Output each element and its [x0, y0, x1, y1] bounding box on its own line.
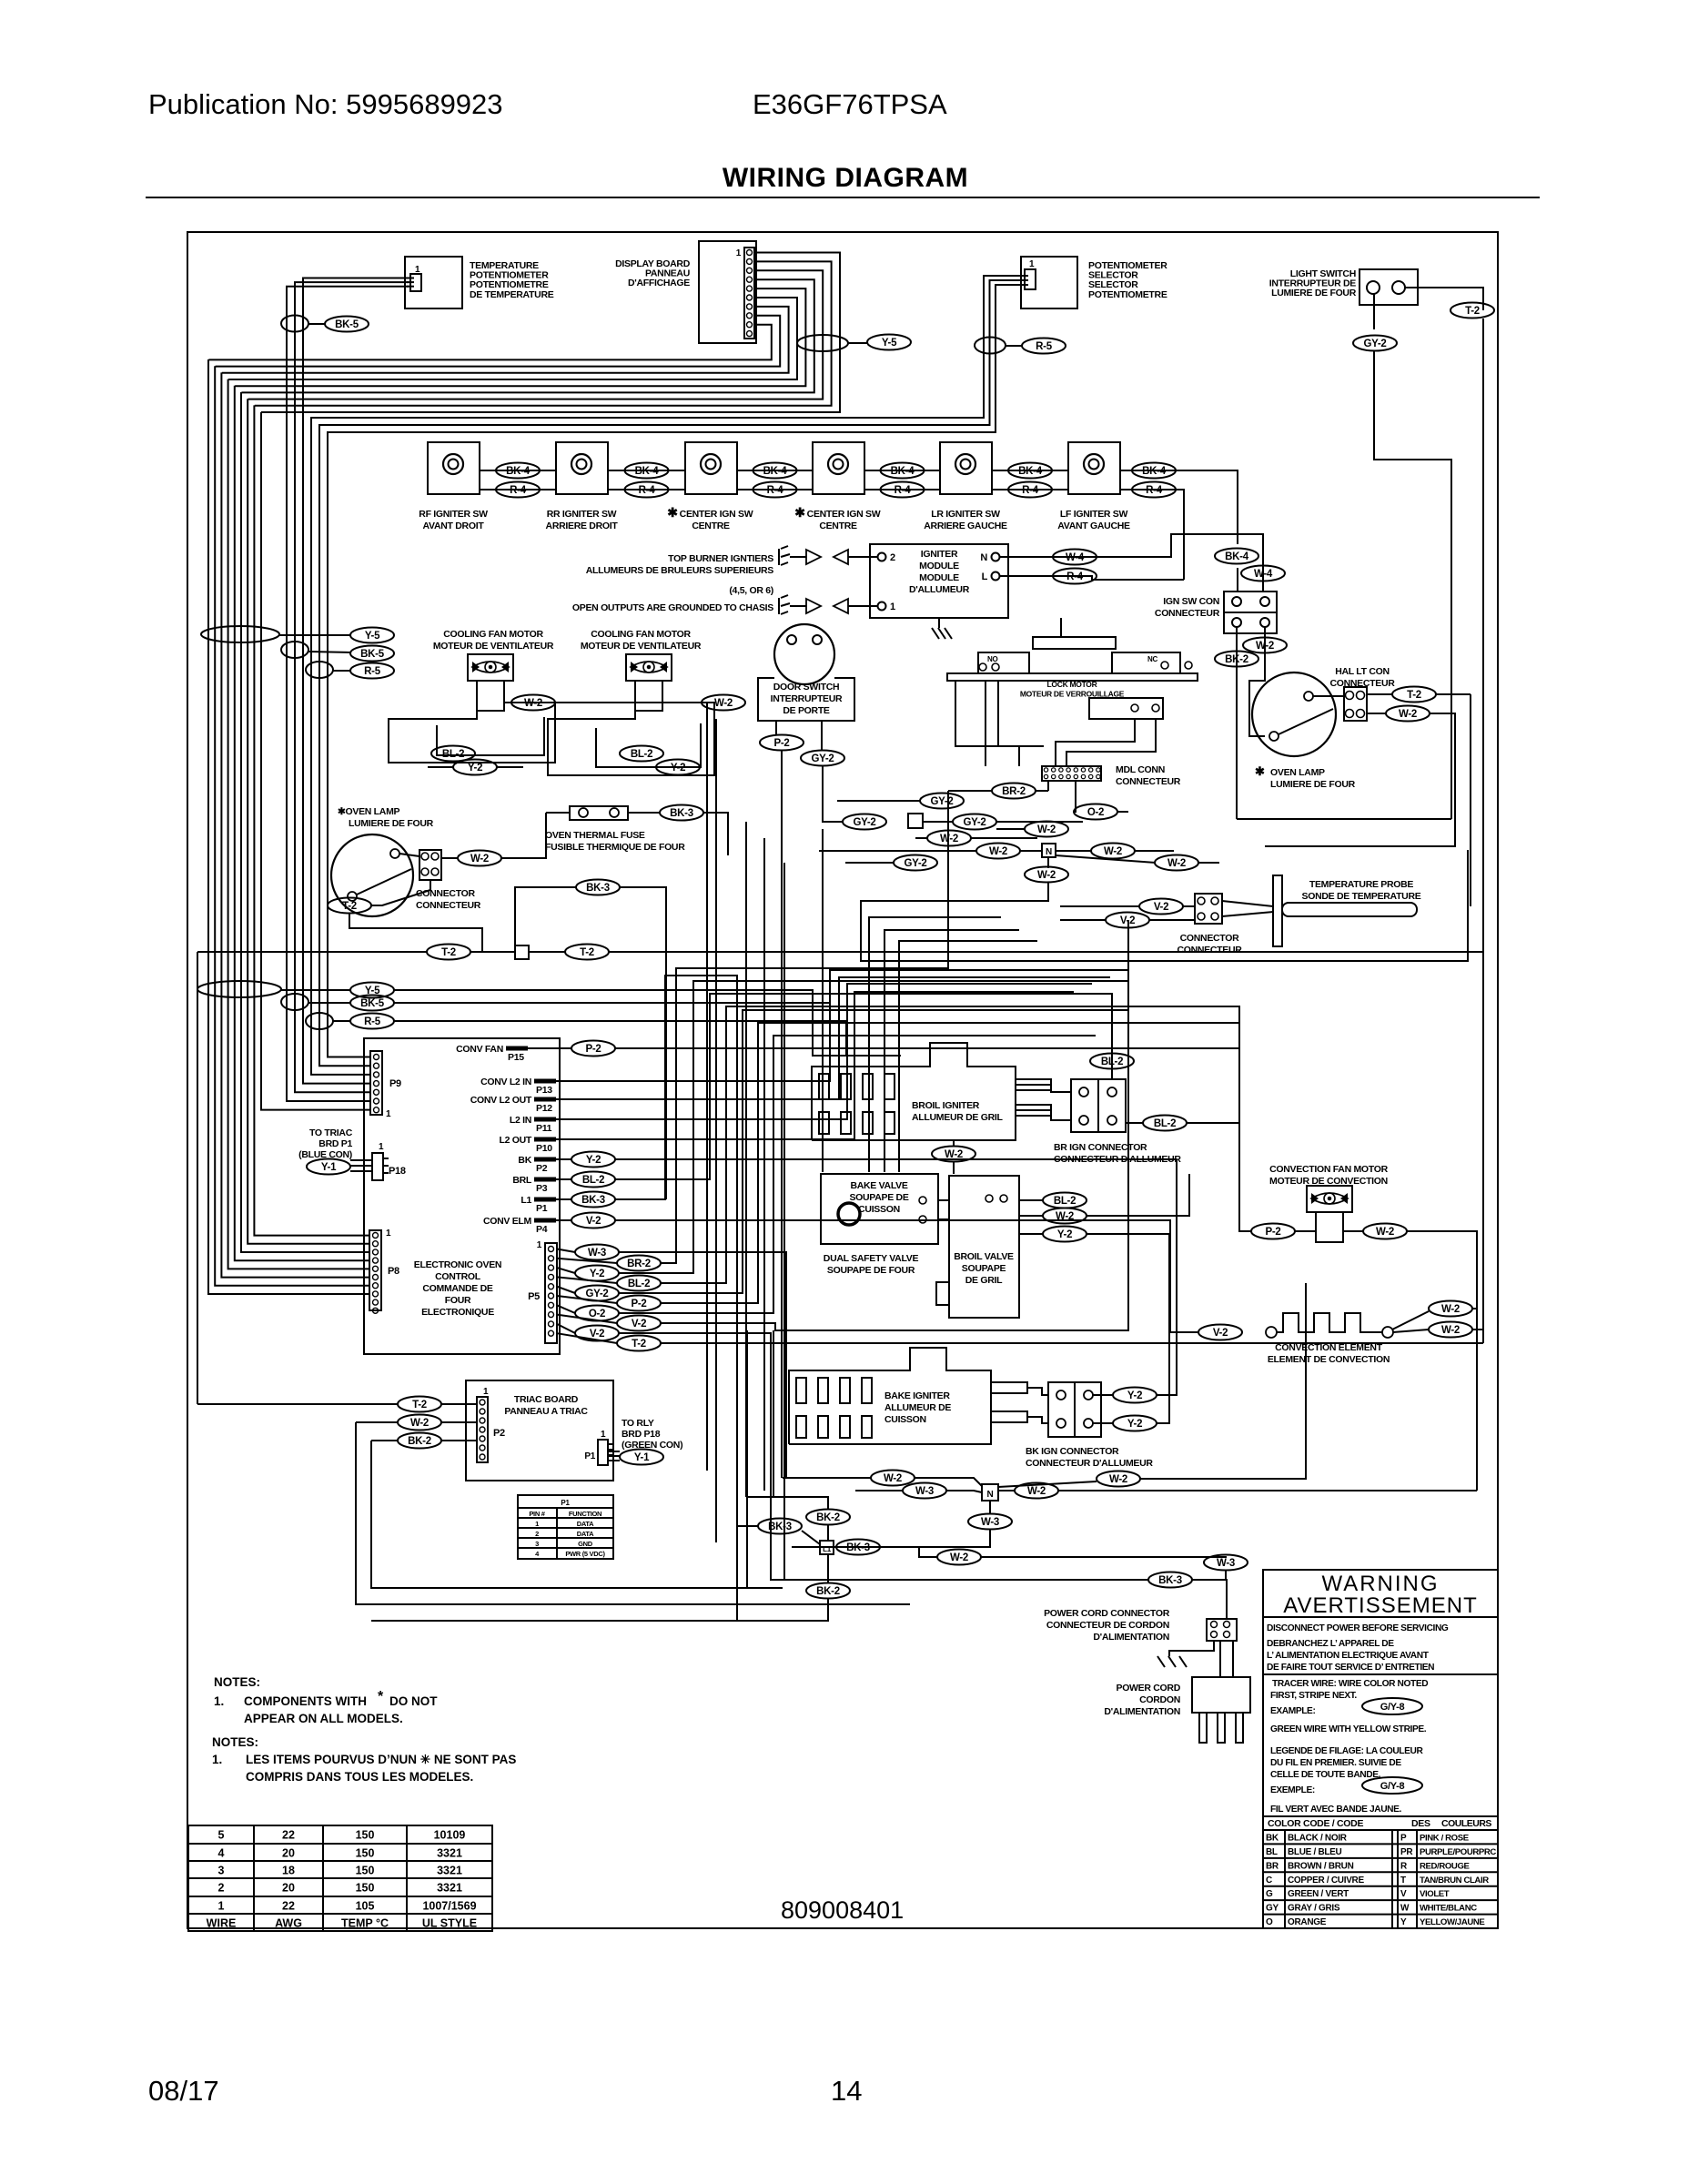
- svg-text:P10: P10: [536, 1143, 552, 1154]
- svg-text:W-2: W-2: [524, 698, 542, 709]
- lock motor NO contact: [978, 652, 1029, 673]
- svg-text:V-2: V-2: [1154, 902, 1168, 913]
- svg-text:YELLOW/JAUNE: YELLOW/JAUNE: [1420, 1917, 1485, 1927]
- wire label R-4: [625, 482, 669, 498]
- svg-text:R-4: R-4: [510, 485, 527, 496]
- wire label W-2 mid a: [1025, 822, 1068, 837]
- svg-text:*: *: [378, 1689, 384, 1704]
- lock motor top bar: [1033, 637, 1116, 649]
- wire label Y-2 broil valve: [1043, 1227, 1087, 1242]
- wire label BK-3 l1 left: [758, 1519, 802, 1534]
- wire P12 right: [556, 977, 1110, 1099]
- svg-text:LOCK MOTOR: LOCK MOTOR: [1047, 680, 1097, 689]
- svg-text:D'ALLUMEUR: D'ALLUMEUR: [909, 584, 970, 595]
- svg-text:O-2: O-2: [1087, 807, 1104, 818]
- wire label P-2 door: [760, 735, 804, 751]
- svg-text:BK: BK: [1266, 1834, 1279, 1844]
- svg-text:20: 20: [282, 1882, 295, 1895]
- svg-text:Y-2: Y-2: [671, 763, 685, 773]
- svg-text:O-2: O-2: [589, 1309, 605, 1319]
- igniter switch box 2 (RR IGNITER SW): [556, 442, 608, 494]
- mid junction square: [908, 814, 923, 828]
- svg-text:CONNECTEUR: CONNECTEUR: [1116, 776, 1181, 787]
- svg-text:TO RLY: TO RLY: [622, 1418, 654, 1429]
- oven lamp left symbol: [331, 834, 413, 916]
- svg-text:BR IGN CONNECTOR: BR IGN CONNECTOR: [1054, 1142, 1147, 1153]
- crossing ellipse Y-5 lower: [197, 981, 281, 997]
- wire GY-2 path down and right: [1374, 351, 1451, 819]
- svg-text:1: 1: [535, 1520, 539, 1528]
- exemple oval G/Y-8: [1362, 1777, 1422, 1794]
- svg-text:W-2: W-2: [1056, 1211, 1074, 1222]
- svg-text:L’ ALIMENTATION ELECTRIQUE: L’ ALIMENTATION ELECTRIQUE AVANT: [1267, 1651, 1430, 1661]
- wire label V-2 at P5 pin 8: [617, 1316, 661, 1331]
- svg-text:1: 1: [386, 1228, 391, 1239]
- svg-text:TRIAC BOARD: TRIAC BOARD: [514, 1394, 579, 1405]
- svg-text:W-2: W-2: [1037, 824, 1056, 835]
- svg-text:FUSIBLE THERMIQUE DE FOUR: FUSIBLE THERMIQUE DE FOUR: [545, 842, 685, 853]
- wire label W-2 right low: [1155, 855, 1198, 871]
- svg-text:R-5: R-5: [364, 1016, 381, 1027]
- svg-text:OPEN OUTPUTS ARE GROUNDED TO C: OPEN OUTPUTS ARE GROUNDED TO CHASIS: [572, 602, 773, 613]
- svg-text:W-2: W-2: [410, 1418, 429, 1429]
- wire P10 right: [556, 992, 1074, 1139]
- svg-text:Y-2: Y-2: [1127, 1390, 1142, 1401]
- svg-text:W-2: W-2: [714, 698, 733, 709]
- svg-text:COOLING FAN MOTOR: COOLING FAN MOTOR: [591, 629, 691, 640]
- igniter switch box 5 (LR IGNITER SW): [940, 442, 992, 494]
- svg-text:P5: P5: [528, 1291, 540, 1302]
- svg-text:BK-2: BK-2: [816, 1512, 840, 1523]
- svg-text:T-2: T-2: [1407, 690, 1421, 701]
- wire bundle: display board loop horizontals: [261, 253, 840, 413]
- temperature probe connector: [1195, 894, 1222, 924]
- wire label W-3 at P5 pin 1: [575, 1245, 619, 1260]
- svg-text:ARRIERE GAUCHE: ARRIERE GAUCHE: [924, 521, 1007, 531]
- svg-text:R-4: R-4: [767, 485, 784, 496]
- svg-text:BK-3: BK-3: [670, 808, 693, 819]
- svg-text:BAKE VALVE: BAKE VALVE: [850, 1180, 907, 1191]
- wire label T-2 left: [427, 945, 470, 960]
- svg-text:BL-2: BL-2: [442, 749, 464, 760]
- svg-text:22: 22: [282, 1900, 295, 1913]
- wire label BK-4 right: [1132, 463, 1176, 479]
- wire label W-2 conv element a: [1429, 1301, 1472, 1317]
- svg-text:W-2: W-2: [1037, 870, 1056, 881]
- wire label V-2 at P4: [571, 1213, 615, 1228]
- svg-text:COLOR CODE / CODE: COLOR CODE / CODE: [1268, 1818, 1363, 1829]
- wire P5 V-2 lower: [619, 1333, 881, 1580]
- svg-text:ALLUMEUR DE GRIL: ALLUMEUR DE GRIL: [912, 1112, 1003, 1123]
- wire BK-4 / R-4 chain across igniter switches: [480, 470, 556, 471]
- svg-text:T-2: T-2: [412, 1400, 427, 1410]
- svg-text:HAL LT CON: HAL LT CON: [1335, 666, 1390, 677]
- svg-text:CONV L2 IN: CONV L2 IN: [480, 1077, 531, 1087]
- svg-text:COPPER / CUIVRE: COPPER / CUIVRE: [1288, 1876, 1364, 1886]
- svg-text:WIRE: WIRE: [207, 1917, 237, 1930]
- svg-text:R-5: R-5: [1036, 341, 1053, 352]
- svg-text:DES: DES: [1411, 1818, 1430, 1829]
- svg-text:GY-2: GY-2: [1363, 339, 1386, 349]
- wire P5 GY-2 up: [619, 1010, 1128, 1293]
- IGN SW CON connector box: [1224, 591, 1277, 633]
- svg-text:PURPLE/POURPRC: PURPLE/POURPRC: [1420, 1847, 1496, 1857]
- wire label BK-5 mid: [350, 646, 394, 662]
- svg-text:BK-2: BK-2: [1225, 654, 1248, 665]
- svg-text:V-2: V-2: [1213, 1328, 1228, 1339]
- wire label BK-4: [881, 463, 925, 479]
- svg-text:Y-2: Y-2: [586, 1155, 601, 1166]
- wire label W-2 lower mid: [937, 1550, 981, 1565]
- wire label W-4: [1053, 550, 1097, 565]
- wire label BL-2 br right: [1143, 1116, 1187, 1131]
- svg-text:Publication No: 5995689923: Publication No: 5995689923: [148, 88, 503, 120]
- svg-text:BK-3: BK-3: [586, 883, 610, 894]
- svg-text:V-2: V-2: [632, 1319, 646, 1330]
- svg-text:P9: P9: [389, 1078, 401, 1089]
- wire label BR-2 at P5 pin 2: [617, 1256, 661, 1271]
- svg-text:CONVECTION FAN MOTOR: CONVECTION FAN MOTOR: [1269, 1164, 1388, 1175]
- wire label GY-2 mid a: [920, 794, 964, 809]
- svg-text:GY: GY: [1266, 1904, 1279, 1914]
- wire P5 BR-2 up to MDL area: [661, 791, 948, 1263]
- svg-text:MOTEUR DE VENTILATEUR: MOTEUR DE VENTILATEUR: [433, 641, 554, 652]
- igniter module terminal 1: [878, 602, 886, 611]
- svg-text:4: 4: [218, 1847, 225, 1860]
- svg-text:DE PORTE: DE PORTE: [783, 705, 830, 716]
- svg-text:Y-1: Y-1: [634, 1452, 650, 1463]
- svg-text:COMPONENTS WITH: COMPONENTS WITH: [244, 1694, 367, 1708]
- svg-text:N: N: [987, 1490, 994, 1500]
- svg-text:PR: PR: [1400, 1847, 1413, 1857]
- wire label T-2 at P5 pin 10: [617, 1336, 661, 1351]
- svg-text:WHITE/BLANC: WHITE/BLANC: [1420, 1904, 1477, 1914]
- svg-text:CENTER IGN SW: CENTER IGN SW: [807, 509, 881, 520]
- wire label GY-2 mid c: [953, 814, 996, 830]
- wire label W-2 conv element b: [1429, 1322, 1472, 1338]
- wire label R-4: [1008, 482, 1052, 498]
- svg-text:R-4: R-4: [895, 485, 912, 496]
- wire bundle: temperature potentiometer 3 wires: [303, 278, 409, 1084]
- svg-text:BK-3: BK-3: [846, 1542, 870, 1553]
- title rule: [146, 197, 1540, 198]
- door switch box: [758, 678, 854, 721]
- cooling fan 1 inner loop wire: [437, 717, 544, 755]
- svg-text:W-2: W-2: [1399, 709, 1417, 720]
- svg-text:P3: P3: [536, 1183, 548, 1194]
- wire label W-4 at IGN SW CON: [1241, 566, 1285, 581]
- svg-text:NO: NO: [987, 655, 997, 663]
- svg-text:P2: P2: [536, 1163, 548, 1174]
- svg-text:G: G: [1266, 1889, 1273, 1899]
- svg-text:E36GF76TPSA: E36GF76TPSA: [753, 88, 947, 120]
- MDL CONN connector strip: [1042, 766, 1101, 781]
- svg-text:AVERTISSEMENT: AVERTISSEMENT: [1283, 1593, 1477, 1618]
- svg-text:P-2: P-2: [632, 1299, 647, 1309]
- svg-text:3321: 3321: [437, 1865, 462, 1877]
- svg-text:1: 1: [601, 1430, 606, 1440]
- svg-text:22: 22: [282, 1829, 295, 1842]
- wire label Y-5 lower: [350, 983, 394, 998]
- igniter switch box 1 (RF IGNITER SW): [428, 442, 480, 494]
- svg-text:5: 5: [218, 1829, 225, 1842]
- wire bundle: selector potentiometer 3 wires: [328, 285, 1025, 1057]
- svg-text:P4: P4: [536, 1224, 548, 1235]
- power cord connector: [1207, 1619, 1237, 1641]
- wire door switch P-2: [775, 721, 777, 735]
- svg-text:MOTEUR DE VENTILATEUR: MOTEUR DE VENTILATEUR: [581, 641, 702, 652]
- wire label W-2 n right: [1015, 1483, 1058, 1499]
- svg-text:DISCONNECT POWER BEFORE SERVIC: DISCONNECT POWER BEFORE SERVICING: [1267, 1623, 1449, 1633]
- wire label R-5 top: [1022, 339, 1066, 354]
- svg-text:DOOR SWITCH: DOOR SWITCH: [773, 682, 840, 693]
- wire R-4 after last switch: [1120, 490, 1184, 580]
- svg-text:DE TEMPERATURE: DE TEMPERATURE: [470, 289, 554, 300]
- svg-text:DATA: DATA: [577, 1530, 594, 1538]
- wire label T-2 triac: [398, 1397, 441, 1412]
- oven lamp right symbol: [1252, 672, 1336, 756]
- potentiometer selector connector pins: [1025, 269, 1036, 289]
- svg-text:08/17: 08/17: [148, 2075, 219, 2107]
- svg-text:DE FAIRE TOUT SERVICE D’: DE FAIRE TOUT SERVICE D’ ENTRETIEN: [1267, 1663, 1434, 1673]
- igniter switch box 3 (CENTER IGN SW): [685, 442, 737, 494]
- wire label R-4: [753, 482, 797, 498]
- wire label GY-2 mid b: [843, 814, 886, 830]
- svg-text:COULEURS: COULEURS: [1441, 1818, 1491, 1829]
- svg-text:FOUR: FOUR: [445, 1295, 471, 1306]
- wire T-2 vertical to triac: [197, 952, 198, 1404]
- svg-text:W-2: W-2: [989, 846, 1007, 857]
- wire bundle: ninth riser to P9 pin 7: [261, 412, 370, 1110]
- color code table: [1263, 1815, 1498, 1817]
- svg-text:D'ALIMENTATION: D'ALIMENTATION: [1104, 1706, 1180, 1717]
- svg-text:FUNCTION: FUNCTION: [569, 1510, 601, 1518]
- wire label R-4: [881, 482, 925, 498]
- wire label BK-4: [753, 463, 797, 479]
- wire label BK-4 at IGN SW CON: [1215, 549, 1258, 564]
- svg-text:LEGENDE DE FILAGE: LA COULEU: LEGENDE DE FILAGE: LA COULEUR: [1270, 1746, 1423, 1756]
- svg-text:DU FIL EN PREMIER. SUIVI: DU FIL EN PREMIER. SUIVIE DE: [1270, 1758, 1401, 1768]
- svg-text:RR IGNITER SW: RR IGNITER SW: [547, 509, 617, 520]
- wire label BL-2 br top: [1090, 1054, 1134, 1069]
- svg-text:1: 1: [1029, 259, 1035, 269]
- svg-text:CORDON: CORDON: [1139, 1694, 1180, 1705]
- svg-text:CONNECTEUR D'ALLUMEUR: CONNECTEUR D'ALLUMEUR: [1026, 1458, 1153, 1469]
- svg-text:LR IGNITER SW: LR IGNITER SW: [931, 509, 1000, 520]
- wire label W-2 lamp left: [458, 851, 501, 866]
- wire P5 BL-2 to broil valve BL-2: [661, 1006, 1239, 1283]
- svg-text:2: 2: [535, 1530, 539, 1538]
- svg-text:TEMPERATURE PROBE: TEMPERATURE PROBE: [1309, 879, 1414, 890]
- svg-text:BRD P18: BRD P18: [622, 1429, 661, 1440]
- svg-text:BAKE IGNITER: BAKE IGNITER: [884, 1390, 950, 1401]
- wire T-2 vertical right side: [1482, 318, 1484, 1343]
- svg-text:POWER CORD: POWER CORD: [1116, 1683, 1180, 1694]
- svg-text:P: P: [1400, 1834, 1407, 1844]
- wire label O-2 at P5 pin 7: [575, 1306, 619, 1321]
- svg-text:GY-2: GY-2: [904, 858, 926, 869]
- svg-text:LUMIERE DE FOUR: LUMIERE DE FOUR: [1271, 288, 1357, 298]
- svg-text:TO TRIAC: TO TRIAC: [309, 1127, 353, 1138]
- svg-text:BK-5: BK-5: [335, 319, 359, 330]
- wire label BK-3 power: [1148, 1572, 1192, 1588]
- wire P5 Y-2 up and to bake igniter connector: [619, 981, 1128, 1273]
- broil valve box: [949, 1176, 1019, 1318]
- wire W-2 from IGN SW CON: [1249, 627, 1265, 736]
- svg-text:GRAY / GRIS: GRAY / GRIS: [1288, 1904, 1340, 1914]
- svg-text:SOUPAPE: SOUPAPE: [962, 1263, 1006, 1274]
- wire label BK-5 lower: [350, 996, 394, 1011]
- svg-text:BK-4: BK-4: [1018, 466, 1043, 477]
- igniter module box: [870, 544, 1008, 618]
- cooling fan 2 inner loop wire: [596, 723, 701, 767]
- svg-text:W-3: W-3: [981, 1517, 999, 1528]
- igniter module ground: [938, 618, 940, 628]
- svg-text:BK-5: BK-5: [360, 998, 385, 1009]
- svg-text:ALLUMEUR DE: ALLUMEUR DE: [884, 1402, 951, 1413]
- svg-text:DEBRANCHEZ L’ APPAREL DE: DEBRANCHEZ L’ APPAREL DE: [1267, 1639, 1394, 1649]
- svg-text:T-2: T-2: [580, 947, 594, 958]
- cooling fan motor 2 circuit wires: [548, 703, 714, 775]
- crossing ellipse BK-5 mid: [281, 642, 308, 658]
- svg-text:BK-4: BK-4: [1142, 466, 1167, 477]
- svg-text:CONNECTOR: CONNECTOR: [416, 888, 475, 899]
- svg-text:1: 1: [386, 1109, 391, 1119]
- svg-text:P-2: P-2: [774, 738, 790, 749]
- svg-text:P12: P12: [536, 1103, 552, 1114]
- svg-text:BL-2: BL-2: [1054, 1196, 1076, 1207]
- svg-text:MODULE: MODULE: [919, 561, 959, 571]
- svg-text:W-2: W-2: [1376, 1227, 1394, 1238]
- wire P3 BL-2 to broil igniter connector: [615, 994, 1112, 1179]
- svg-text:150: 150: [356, 1829, 375, 1842]
- svg-text:ORANGE: ORANGE: [1288, 1917, 1327, 1927]
- wire label O-2 mid: [1074, 804, 1117, 820]
- wire label BK-2 triac: [398, 1433, 441, 1449]
- wire label T-2 light switch: [1450, 303, 1494, 318]
- svg-text:P13: P13: [536, 1085, 552, 1096]
- svg-text:PINK / ROSE: PINK / ROSE: [1420, 1834, 1470, 1844]
- svg-text:NOTES:: NOTES:: [212, 1735, 258, 1749]
- temperature potentiometer box: [405, 257, 462, 308]
- svg-text:VIOLET: VIOLET: [1420, 1889, 1450, 1899]
- svg-text:CONNECTEUR: CONNECTEUR: [1177, 945, 1242, 955]
- cooling fan motor 1 circuit wires: [389, 703, 555, 763]
- svg-text:EXEMPLE:: EXEMPLE:: [1270, 1785, 1315, 1795]
- crossing ellipse R-5 mid: [306, 662, 333, 678]
- svg-text:Y-2: Y-2: [468, 763, 482, 773]
- wire label BK-5 top: [325, 317, 369, 332]
- lock motor wide bar: [947, 673, 1198, 681]
- svg-text:TAN/BRUN CLAIR: TAN/BRUN CLAIR: [1420, 1876, 1489, 1886]
- svg-text:2: 2: [890, 552, 895, 563]
- oven lamp left connector: [419, 850, 441, 880]
- crossing ellipse Y-5 mid: [201, 626, 279, 642]
- warning box: [1263, 1570, 1498, 1928]
- svg-text:Y-2: Y-2: [1057, 1229, 1072, 1240]
- svg-text:BL-2: BL-2: [1101, 1057, 1123, 1067]
- svg-text:Y-2: Y-2: [1127, 1419, 1142, 1430]
- wire label BL-2 broil valve: [1043, 1193, 1087, 1208]
- svg-text:1: 1: [483, 1387, 489, 1397]
- wire label BK-3 l1 right: [836, 1540, 880, 1555]
- broil igniter terminals to connector: [1016, 1085, 1071, 1092]
- svg-text:3: 3: [218, 1865, 225, 1877]
- wire label BL-2 at P3: [571, 1172, 615, 1188]
- svg-text:CENTRE: CENTRE: [819, 521, 857, 531]
- wire label W-3 n left: [903, 1483, 946, 1499]
- wire label BL-2 fan2: [620, 746, 663, 762]
- svg-text:ALLUMEURS DE BRULEURS SUPERIEU: ALLUMEURS DE BRULEURS SUPERIEURS: [586, 565, 774, 576]
- svg-text:BK-4: BK-4: [506, 466, 531, 477]
- svg-text:1007/1569: 1007/1569: [422, 1900, 476, 1913]
- svg-text:C: C: [1266, 1876, 1272, 1886]
- wire label Y-2 bk top: [1113, 1388, 1157, 1403]
- wire label W-2 left of N: [976, 844, 1020, 859]
- wire label T-2 right: [565, 945, 609, 960]
- svg-text:DUAL SAFETY VALVE: DUAL SAFETY VALVE: [824, 1253, 919, 1264]
- svg-text:1.: 1.: [212, 1753, 222, 1766]
- wire bundle: deep feed verticals to lower cluster: [746, 1330, 748, 1588]
- svg-text:R-4: R-4: [639, 485, 656, 496]
- wire T-2 long line left: [197, 951, 428, 953]
- svg-text:BK-4: BK-4: [891, 466, 915, 477]
- svg-text:W-2: W-2: [1441, 1304, 1460, 1315]
- svg-text:BK-4: BK-4: [763, 466, 788, 477]
- svg-text:CENTER IGN SW: CENTER IGN SW: [680, 509, 753, 520]
- triac board box: [466, 1380, 613, 1481]
- svg-text:P15: P15: [508, 1052, 524, 1063]
- convection fan motor symbol: [1307, 1186, 1352, 1212]
- wire junction y900 right side: [1237, 818, 1451, 820]
- svg-text:1: 1: [379, 1142, 384, 1152]
- convection element zigzag: [1266, 1327, 1277, 1338]
- wire label Y-2 bk bottom: [1113, 1416, 1157, 1431]
- svg-text:DE GRIL: DE GRIL: [965, 1275, 1003, 1286]
- junction node N mid: [1042, 844, 1056, 857]
- svg-text:AVANT DROIT: AVANT DROIT: [423, 521, 485, 531]
- bake valve contacts: [919, 1197, 926, 1204]
- wire label T-2 lamp left: [328, 898, 371, 914]
- svg-text:ELECTRONIC OVEN: ELECTRONIC OVEN: [414, 1259, 501, 1270]
- svg-text:Y: Y: [1400, 1917, 1407, 1927]
- wire label W-2 n left: [871, 1471, 915, 1486]
- svg-text:(GREEN CON): (GREEN CON): [622, 1440, 682, 1451]
- wire label GY-2 mid d: [894, 855, 937, 871]
- P2 connector strip: [477, 1397, 488, 1462]
- igniter switch box 6 (LF IGNITER SW): [1068, 442, 1120, 494]
- power cord plug: [1192, 1677, 1250, 1713]
- P9 connector strip: [370, 1051, 382, 1115]
- svg-text:BK: BK: [518, 1155, 531, 1166]
- svg-text:D'AFFICHAGE: D'AFFICHAGE: [628, 278, 690, 288]
- igniter switch box 4 (CENTER IGN SW): [813, 442, 864, 494]
- wire label Y-2 at P2: [571, 1152, 615, 1168]
- svg-text:✱: ✱: [667, 505, 678, 520]
- svg-text:LUMIERE DE FOUR: LUMIERE DE FOUR: [349, 818, 434, 829]
- wire P4 V-2 to convection element: [615, 1220, 1198, 1332]
- svg-text:BK-3: BK-3: [768, 1522, 792, 1532]
- svg-text:L2 OUT: L2 OUT: [499, 1135, 531, 1146]
- svg-text:Y-5: Y-5: [365, 631, 380, 642]
- svg-text:SOUPAPE DE: SOUPAPE DE: [849, 1192, 908, 1203]
- igniter arrows row 1: [781, 546, 788, 549]
- svg-text:BR-2: BR-2: [1002, 786, 1026, 797]
- svg-text:BK-4: BK-4: [635, 466, 660, 477]
- crossing ellipse R-5 top at selector potentiometer: [975, 338, 1006, 354]
- svg-text:R-5: R-5: [364, 666, 381, 677]
- bake igniter element: [789, 1348, 991, 1444]
